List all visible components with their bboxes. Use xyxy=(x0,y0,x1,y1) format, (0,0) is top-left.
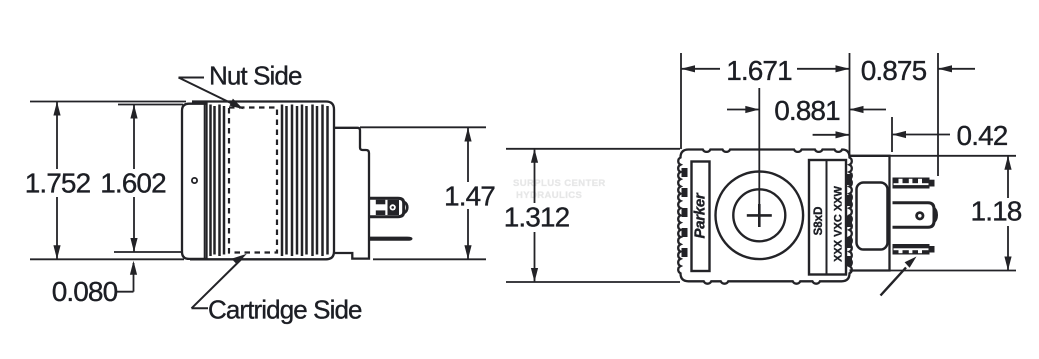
dimension 0.881 (outside arrows) xyxy=(727,106,886,113)
flange xyxy=(182,104,207,259)
spade terminal with hole (left view) xyxy=(369,198,407,216)
edge tabs left xyxy=(682,168,688,257)
extension line 1.18 top xyxy=(850,155,1017,157)
svg-text:0.080: 0.080 xyxy=(52,276,118,307)
rib lines xyxy=(211,105,328,257)
extension line 1.312 bottom xyxy=(506,281,680,283)
hidden cartridge cavity (dashed) xyxy=(229,108,277,253)
extension line bottom 1.602 xyxy=(114,251,183,253)
svg-text:1.312: 1.312 xyxy=(504,202,570,233)
connector boot rounded rect xyxy=(857,183,888,250)
extension line body right xyxy=(849,53,851,157)
svg-text:Cartridge Side: Cartridge Side xyxy=(208,295,362,325)
top terminal (serrated) xyxy=(893,178,935,189)
extension line 0.42 left xyxy=(891,117,893,152)
svg-text:1.752: 1.752 xyxy=(25,167,91,198)
svg-text:SURPLUS CENTER: SURPLUS CENTER xyxy=(513,178,606,189)
svg-text:1.18: 1.18 xyxy=(971,195,1022,226)
extension line terminal tip xyxy=(937,53,939,176)
middle terminal with hole xyxy=(893,203,939,228)
extension line top 1.602 xyxy=(118,104,183,106)
edge tabs right xyxy=(845,174,852,266)
leader arrow to bottom terminal xyxy=(881,257,917,296)
extension line 1.18 bottom xyxy=(890,270,1016,272)
svg-text:0.875: 0.875 xyxy=(861,55,927,86)
dimension 0.42 xyxy=(813,131,950,139)
mold dot xyxy=(192,178,197,183)
coil body top view outline (scalloped) xyxy=(678,150,852,284)
extension line top 1.752 xyxy=(30,101,186,103)
svg-text:0.42: 0.42 xyxy=(957,120,1008,151)
connector block (top view) xyxy=(850,156,890,271)
svg-text:Nut Side: Nut Side xyxy=(209,61,302,91)
leader Nut Side xyxy=(179,78,244,110)
extension line bottom 1.47 xyxy=(373,258,486,260)
dimension 0.080 leader xyxy=(116,261,137,292)
dimension 1.752 xyxy=(53,102,60,260)
svg-text:1.602: 1.602 xyxy=(100,167,166,198)
center cross xyxy=(747,204,772,227)
svg-text:XXX VXC XXW: XXX VXC XXW xyxy=(833,185,845,261)
mounting hole inner circle xyxy=(733,189,785,241)
flange inner edge xyxy=(204,104,206,259)
watermark xyxy=(513,178,606,201)
dimension 1.312 xyxy=(531,149,538,282)
svg-text:0.881: 0.881 xyxy=(774,95,840,126)
svg-text:S8xD: S8xD xyxy=(813,207,825,236)
label strip divider xyxy=(826,160,828,275)
dimension 1.671 xyxy=(681,65,850,72)
svg-text:HYDRAULICS: HYDRAULICS xyxy=(516,190,582,201)
extension line top 1.47 xyxy=(360,126,486,128)
centerline extension 0.881 xyxy=(758,88,760,204)
extension line body left xyxy=(680,53,682,149)
leader Cartridge Side xyxy=(192,254,247,308)
coil body outline xyxy=(190,102,334,260)
extension line 1.312 top xyxy=(506,148,680,150)
dimension 1.602 xyxy=(130,105,137,253)
dimension 0.875 (outside arrow right) xyxy=(938,65,975,72)
label strip right xyxy=(809,160,846,275)
dimension 1.47 xyxy=(464,128,471,260)
label strip left (Parker) xyxy=(692,162,710,272)
svg-text:1.47: 1.47 xyxy=(444,180,495,211)
svg-text:Parker: Parker xyxy=(692,192,709,238)
dimension 1.18 xyxy=(1004,156,1011,271)
mounting hole outer circle xyxy=(716,172,804,260)
connector housing (left view) xyxy=(334,128,369,259)
extension line bottom 1.752 xyxy=(30,258,184,260)
svg-text:1.671: 1.671 xyxy=(726,55,792,86)
lower blade terminal edge-on (left view) xyxy=(369,237,413,241)
bottom terminal (serrated) xyxy=(893,244,935,255)
